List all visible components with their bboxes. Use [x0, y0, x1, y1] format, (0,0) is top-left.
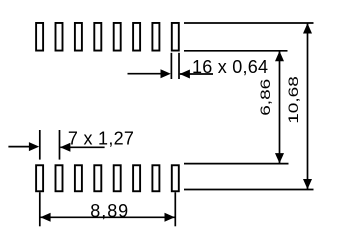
pad 16 (bottom row): [172, 165, 179, 191]
svg-text:10,68: 10,68: [285, 76, 301, 124]
arrowhead left-pointing (8,89): [40, 213, 50, 222]
pad 8 (top row): [172, 23, 179, 51]
arrowhead down 10,68: [303, 179, 312, 189]
arrowhead right-pointing (7 x 1,27): [29, 142, 39, 151]
extension line center pad 10 (7 x 1,27): [59, 130, 61, 160]
svg-text:7 x 1,27: 7 x 1,27: [68, 129, 134, 149]
pad 9 (bottom row): [36, 165, 43, 191]
extension line left edge pad 8 (16 x 0,64): [170, 53, 172, 79]
svg-text:6,86: 6,86: [257, 79, 273, 116]
svg-text:8,89: 8,89: [90, 201, 128, 221]
extension line below pad 16 (8,89): [174, 192, 176, 226]
pad 10 (bottom row): [56, 165, 63, 191]
extension line top of top pads (to 10,68): [184, 22, 314, 24]
leader arrow left (16 x 0,64): [128, 73, 163, 75]
arrowhead up 10,68: [303, 23, 312, 33]
extension line right edge pad 8 (16 x 0,64): [178, 53, 180, 79]
extension line bottom of bottom pads (to 10,68): [184, 189, 314, 191]
label 10,68 (rotated): [285, 76, 301, 124]
pad 11 (bottom row): [75, 165, 82, 191]
pad 5 (top row): [114, 23, 121, 51]
pad 15 (bottom row): [152, 165, 159, 191]
extension line center pad 9 (7 x 1,27): [39, 130, 41, 160]
leader line right (16 x 0,64): [180, 73, 213, 75]
arrowhead left-pointing (7 x 1,27): [60, 143, 70, 152]
pad 6 (top row): [133, 23, 140, 51]
pad 4 (top row): [94, 23, 101, 51]
pad 7 (top row): [152, 23, 159, 51]
pad 3 (top row): [75, 23, 82, 51]
extension line top of bottom pads (to 6,86): [184, 163, 289, 165]
dimension line 6,86: [279, 51, 281, 164]
pad 1 (top row): [36, 23, 43, 51]
leader line right (7 x 1,27): [60, 146, 104, 148]
arrowhead up 6,86: [275, 51, 284, 61]
extension line bottom of top pads (to 6,86): [184, 50, 288, 52]
dimension line 8,89: [41, 216, 175, 218]
label 6,86 (rotated): [257, 79, 273, 116]
arrowhead right-pointing (16 x 0,64): [161, 69, 171, 78]
svg-text:16 x 0,64: 16 x 0,64: [192, 57, 268, 77]
pad 13 (bottom row): [114, 165, 121, 191]
leader arrow left (7 x 1,27): [8, 146, 30, 148]
pad 14 (bottom row): [133, 165, 140, 191]
pad 2 (top row): [56, 23, 63, 51]
dimension line 10,68: [307, 23, 309, 190]
arrowhead down 6,86: [275, 153, 284, 163]
arrowhead left-pointing (16 x 0,64): [180, 70, 190, 79]
arrowhead right-pointing (8,89): [165, 213, 175, 222]
pad 12 (bottom row): [94, 165, 101, 191]
extension line below pad 9 (8,89): [39, 192, 41, 226]
